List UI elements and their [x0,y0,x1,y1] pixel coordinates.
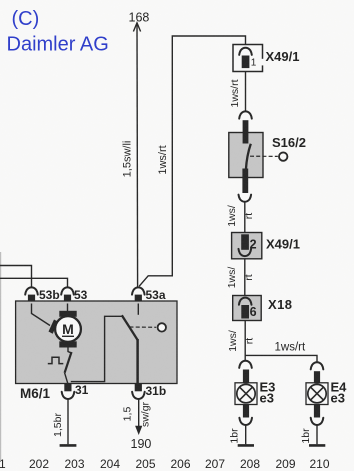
ground below E4 [309,444,325,447]
terminal 31 [62,383,89,399]
park switch 53a stub [137,304,139,315]
terminal 53a [132,287,166,303]
actuator link of park switch [130,323,167,331]
switch blade from motor to terminal 31 [65,348,72,384]
actuator link of S16/2 [250,152,287,160]
thermal cutout symbol [48,357,64,363]
connector X49/1 pin 2 [232,233,262,259]
park switch blade [122,315,138,340]
wire 1ws/rt from X49/1 pin 1 to switch S16/2 [229,72,246,113]
wire to terminal 53b [0,266,32,288]
connector joint below S16/2 [239,195,252,202]
label E3 e3 [260,379,276,405]
text copyright (C) Daimler AG [7,8,109,56]
wire park switch to terminal 31b [136,339,139,384]
switch S16/2 [229,133,263,194]
connector X49/1 pin 1 [233,45,264,72]
wire 1,5br from terminal 31 to ground [52,399,68,444]
wire 1ws/rt branch from junction to lamp E4 [245,342,317,364]
ground below E3 [238,444,254,447]
terminal 53 [61,287,87,303]
wire 1ws/rt from X49/1 pin 2 to connector X18 [226,259,255,296]
terminal 53b [25,287,59,303]
terminal 31b [132,384,166,400]
wire 1br from E3 to ground [229,425,246,444]
lamp E3 [235,361,257,425]
connector X18 pin 6 [233,296,262,321]
wiper motor unit M6/1 box [16,301,177,384]
wire 1ws/rt from X18 down to junction at lamp E3 [227,321,255,362]
wire 1ws/rt from S16/2 to connector X49/1 pin 2 [226,202,255,233]
wire 1,5 sw/gr from 31b to node 190 [122,399,152,435]
ground below terminal 31 [60,444,77,447]
lamp E4 [306,362,328,425]
grid coordinate numbers [0,457,330,471]
wire 1br from E4 to ground [300,425,317,444]
motor M [32,304,81,348]
wire to terminal 53 [0,278,68,287]
connector joint above S16/2 [239,111,252,133]
park switch contact path (to motor circuit) [71,316,122,381]
wire 1ws/rt from terminal 53a up to connector X49/1 pin 1 [139,36,245,286]
label E4 e3 [331,379,348,405]
wire 1,5sw/li from node 168 to terminal 53a [122,23,141,288]
